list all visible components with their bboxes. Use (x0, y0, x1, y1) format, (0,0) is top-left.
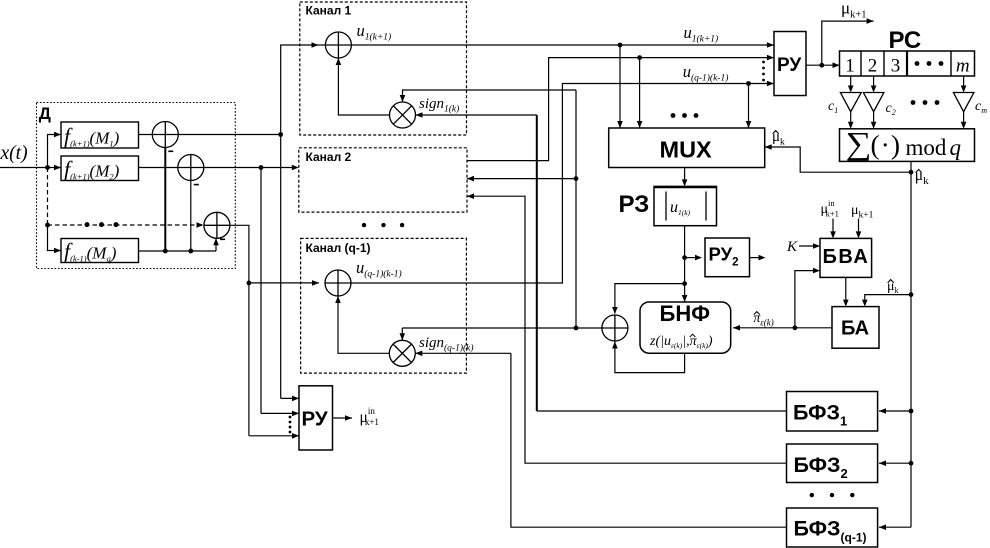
node dashed junction (45, 223, 50, 228)
svg-text:БА: БА (841, 318, 869, 340)
wire R3 output down (684, 226, 686, 302)
multiplier M1 (390, 102, 416, 128)
wire BVA top input 1 (832, 219, 834, 237)
svg-text:БФЗ1: БФЗ1 (793, 401, 847, 429)
wire into BFZ2 (879, 462, 911, 464)
adder A1 (152, 122, 178, 148)
wire c2 to sum (873, 112, 875, 127)
svg-text:MUX: MUX (660, 137, 713, 163)
wire A4 output left to channels (402, 327, 602, 329)
wire K into BVA (799, 245, 819, 247)
block BA (832, 307, 879, 349)
wire dashed down from x(t) junction (47, 168, 49, 226)
block sum mod q (840, 129, 975, 162)
svg-text:1: 1 (845, 56, 855, 77)
block register PC (840, 51, 975, 76)
wire BFZ1 output to M1 (bold bus) (537, 410, 787, 412)
wire f1 output line (139, 134, 281, 136)
wire c1 to sum (850, 112, 852, 127)
wire MUX feed 2 (639, 58, 641, 128)
node junction mu_hat BA branch (909, 292, 914, 297)
vertical dots at RU inputs (289, 416, 292, 419)
vertical dots before RU top-right (762, 61, 765, 64)
wire cell1 to c1 (850, 76, 852, 91)
wire pi feedback into BVA (795, 271, 819, 328)
wire RU output to register (806, 64, 840, 66)
node junction A2 line (259, 165, 264, 170)
block BFZ1 (787, 392, 878, 432)
adder B3 (325, 270, 351, 296)
adder A4 (602, 315, 628, 341)
wire M1 output to B1 (338, 58, 389, 115)
block R3 register (654, 186, 717, 225)
multiplier triangle cm (953, 93, 974, 112)
svg-text:m: m (956, 56, 970, 77)
node junction RU output (819, 63, 824, 68)
wire into RU bottom-left input1 (281, 397, 299, 399)
wire subtract input A1 (bold) (164, 148, 166, 252)
svg-text:3: 3 (891, 56, 901, 77)
wire bus u2 down (260, 168, 262, 414)
multiplier triangle c2 (863, 93, 884, 112)
block BVA (820, 238, 872, 277)
svg-text:Канал 2: Канал 2 (306, 150, 352, 164)
dashed box Channel 1 (300, 2, 467, 135)
adder A2 (178, 155, 204, 181)
adder A3 (204, 212, 230, 238)
wire B1 line to RU top-right (618, 43, 623, 48)
wire BNF bottom loop to A4 (615, 342, 685, 373)
wire dashed to adder A3 (48, 224, 204, 226)
node junction ch2 branch (574, 176, 579, 181)
svg-text:∑: ∑ (846, 125, 872, 161)
svg-text:mod: mod (906, 135, 947, 160)
wire MUX output to R3 (684, 168, 686, 186)
svg-text:Канал (q-1): Канал (q-1) (306, 241, 371, 255)
wire BVA top input 2 (858, 219, 860, 237)
block BFZ3 (787, 508, 878, 547)
node x(t) junction (45, 165, 50, 170)
wire M3 output to B3 (338, 296, 389, 353)
wire mu_k+1 up (822, 21, 874, 65)
wire into RU bottom-left input3 (249, 435, 299, 437)
svg-text:(·): (·) (871, 129, 901, 160)
wire M1 right input (416, 114, 537, 116)
block RU bottom-left (299, 386, 333, 450)
wire into BFZ1 (879, 410, 911, 412)
block RU top-right (774, 32, 806, 96)
ellipsis triangles (911, 100, 916, 105)
ellipsis MUX feeds (671, 113, 676, 118)
minus sign at A3 (220, 238, 225, 240)
svg-text:x(t): x(t) (0, 143, 28, 164)
wire RU2 output dangling (750, 257, 765, 259)
node junction ch2-MUX (637, 55, 642, 60)
wire f3 output line (139, 250, 217, 252)
block BFZ2 (787, 444, 878, 483)
dashed box Channel 2 (299, 148, 467, 212)
wire MUX feed 1 (619, 45, 621, 128)
block MUX (609, 128, 765, 168)
wire into RU bottom-left input2 (261, 412, 299, 414)
svg-text:РС: РС (889, 27, 922, 54)
wire to f1 (48, 135, 62, 168)
wire BFZ2 output to channel2 (467, 196, 787, 463)
wire M3 right input (415, 352, 511, 354)
svg-text:БВА: БВА (823, 246, 870, 268)
ellipsis register (915, 61, 920, 66)
wire bus u1 to channel1 and RU decision block (281, 45, 774, 398)
block f1 (61, 122, 139, 148)
node junction mu_hat (909, 170, 914, 175)
svg-text:РЗ: РЗ (619, 191, 650, 218)
node junction ch3-MUX (746, 81, 751, 86)
wire BFZ3 output to M3 (511, 353, 787, 527)
svg-text:Д: Д (39, 104, 51, 123)
block f2 (61, 156, 139, 181)
label modulus u in R3 (665, 192, 667, 221)
node junction A3 line (247, 281, 252, 286)
block BNF (640, 302, 731, 353)
svg-text:РУ: РУ (302, 407, 328, 430)
svg-text:Канал 1: Канал 1 (306, 4, 352, 18)
ellipsis on dashed line (85, 222, 90, 227)
svg-text:РУ: РУ (777, 55, 801, 76)
svg-text:БНФ: БНФ (660, 301, 711, 326)
dashed box Channel q-1 (301, 238, 467, 373)
wire to RU2 (685, 257, 701, 259)
multiplier M3 (389, 340, 415, 366)
wire mu_hat to MUX (765, 147, 911, 172)
wire mu_hat to BA (865, 295, 911, 305)
adder B1 (325, 32, 351, 58)
svg-text:БФЗ2: БФЗ2 (794, 453, 848, 481)
wire BVA to BA (845, 277, 847, 305)
minus sign at A2 (194, 184, 199, 186)
wire cm to sum (963, 112, 965, 127)
wire B3 output to RU (351, 84, 774, 284)
multiplier triangle c1 (840, 93, 861, 112)
wire bus u3 down (248, 283, 250, 436)
wire M1 top input (403, 90, 577, 102)
node junction A1 line (278, 132, 283, 137)
wire M3 top input (401, 328, 403, 340)
ellipsis BFZ (810, 493, 814, 497)
wire x(t) input (0, 167, 61, 169)
wire BA output pi to BNF (733, 327, 832, 329)
wire channel2 input1 (467, 178, 576, 180)
register cell dividers (860, 51, 862, 76)
dashed box D (decoder) (37, 103, 236, 269)
node junction f3-A1 (163, 249, 168, 254)
wire sum output down (910, 161, 912, 172)
svg-text:2: 2 (868, 56, 878, 77)
minus sign at A1 (168, 150, 173, 152)
node junction f3-A2 (188, 249, 193, 254)
wire to f3 (48, 225, 62, 251)
wire into BFZ3 (879, 526, 911, 528)
node junction RU2 branch (682, 255, 687, 260)
wire RU bottom-left output (333, 417, 353, 419)
wire f2 output line (139, 167, 294, 169)
node junction A4 branch (682, 281, 687, 286)
node junction BFZ2 (909, 461, 914, 466)
ellipsis between channels (362, 223, 366, 227)
wire bus A4 distribution up (575, 90, 577, 328)
wire branch to adder A4 top (615, 284, 685, 314)
wire cell2 to c2 (873, 76, 875, 91)
svg-text:q: q (950, 135, 962, 160)
wire cellm to cm (963, 76, 965, 91)
svg-text:K: K (786, 239, 798, 255)
wire subtract input A2 (190, 181, 192, 252)
node junction BFZ1 (909, 409, 914, 414)
block RU2 (705, 238, 750, 277)
wire channel2 output to RU (467, 58, 774, 161)
node junction pi-BVA (793, 325, 798, 330)
wire f3 line up into adder A3 (215, 238, 217, 251)
block f3 (61, 239, 139, 263)
node junction A4-bus (574, 326, 579, 331)
wire A3 output to B3 (230, 225, 319, 283)
wire right vertical bus (910, 172, 912, 527)
wire MUX feed 3 (748, 84, 750, 129)
